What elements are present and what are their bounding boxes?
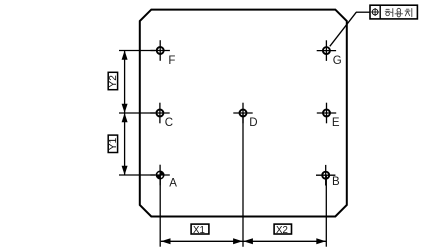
extension line F row xyxy=(119,50,155,52)
extension line from D down xyxy=(242,113,244,247)
plate outline xyxy=(140,10,347,217)
arrow X2 right xyxy=(316,238,326,244)
hole F xyxy=(151,40,170,61)
hole C xyxy=(150,103,169,124)
용 xyxy=(397,8,401,12)
extension line from A down xyxy=(159,175,161,247)
svg-text:C: C xyxy=(165,117,173,129)
arrow X1 left xyxy=(161,238,171,244)
arrow Y2 bottom xyxy=(122,104,128,113)
svg-text:D: D xyxy=(249,117,257,129)
치 xyxy=(406,8,409,10)
svg-text:B: B xyxy=(332,176,340,188)
label box X2 xyxy=(274,224,291,234)
hole G xyxy=(317,40,336,61)
leader line horizontal xyxy=(356,11,370,13)
허 xyxy=(386,8,389,10)
svg-text:X1: X1 xyxy=(193,225,205,236)
svg-text:Y2: Y2 xyxy=(108,75,119,88)
svg-text:E: E xyxy=(332,117,340,129)
arrow X2 left xyxy=(243,238,253,244)
korean text "허용치" (drawn) xyxy=(385,8,412,17)
label box Y1 xyxy=(108,135,117,152)
svg-text:G: G xyxy=(333,55,342,67)
feature control frame xyxy=(370,5,417,19)
extension line A row xyxy=(119,174,155,176)
hole E xyxy=(317,103,336,124)
leader line diagonal to G xyxy=(330,12,357,46)
label box Y2 xyxy=(108,72,117,89)
svg-text:A: A xyxy=(169,177,177,189)
dimension line Y xyxy=(124,51,126,176)
dimension line X xyxy=(161,240,326,242)
position symbol xyxy=(371,8,379,16)
arrow Y2 top xyxy=(122,51,128,60)
svg-text:Y1: Y1 xyxy=(108,137,119,150)
svg-text:X2: X2 xyxy=(276,225,288,236)
arrow X1 right xyxy=(233,238,243,244)
extension line C row xyxy=(119,112,155,114)
hole B xyxy=(316,165,335,186)
arrow Y1 bottom xyxy=(122,166,128,175)
hole D xyxy=(233,103,252,124)
extension line from B down xyxy=(325,175,327,247)
label box X1 xyxy=(191,224,209,234)
arrow Y1 top xyxy=(122,113,128,122)
svg-text:F: F xyxy=(168,55,175,67)
hole A xyxy=(150,165,169,186)
